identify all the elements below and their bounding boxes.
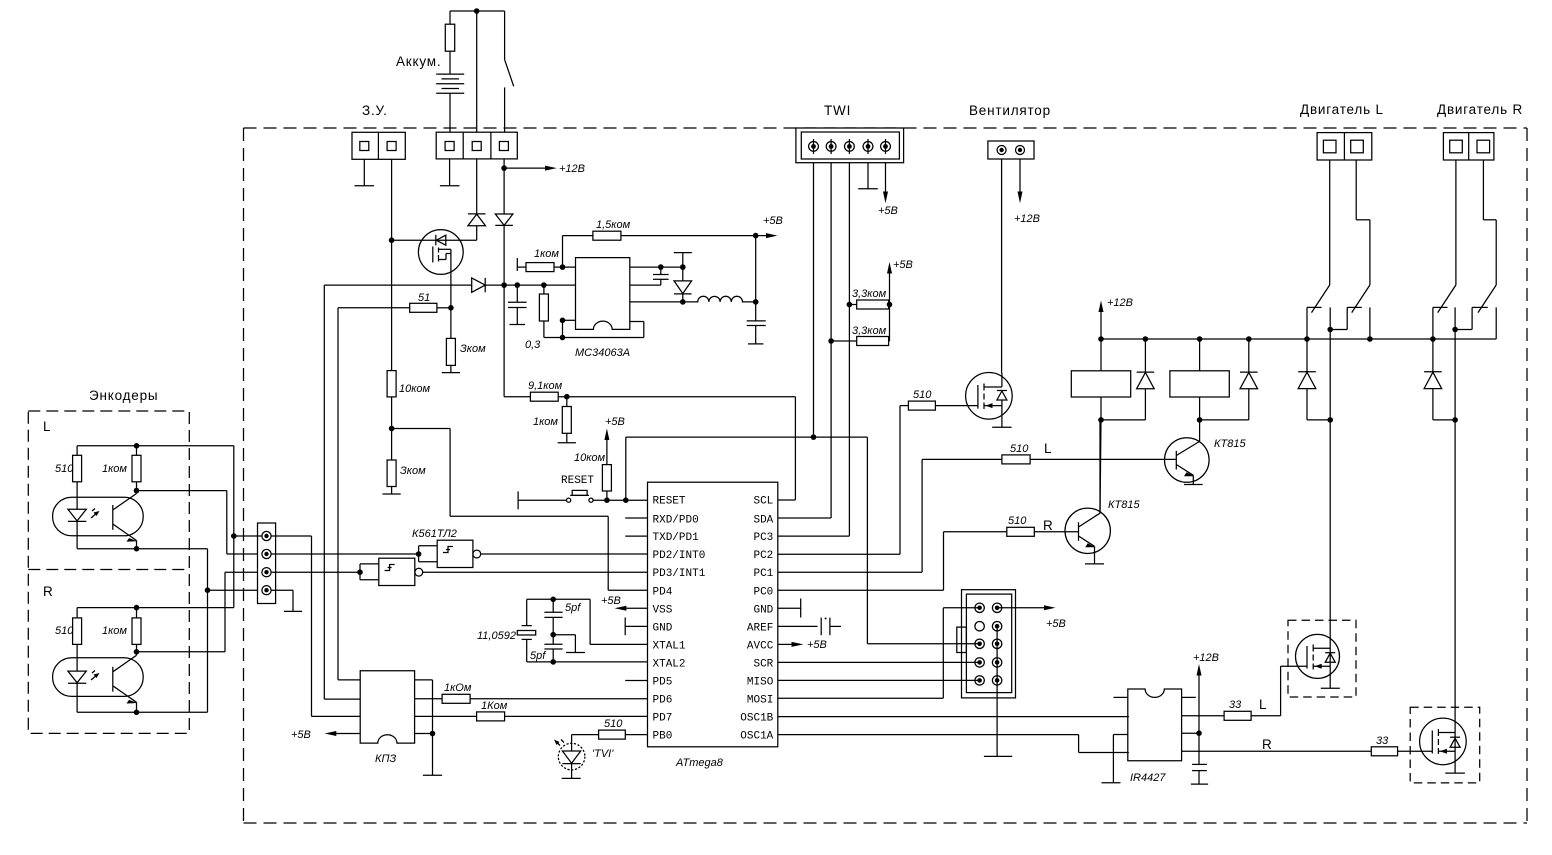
node reset +5V branch [623, 497, 629, 503]
phototransistor opto R [113, 652, 138, 713]
node +12V tap [501, 165, 507, 171]
wire X2 pin3 down [503, 159, 505, 214]
node pullup upper right [887, 302, 893, 308]
svg-text:PB0: PB0 [653, 731, 673, 743]
svg-text:+5В: +5В [763, 215, 783, 227]
terminal stub diode top [674, 253, 692, 281]
svg-text:+5В: +5В [605, 416, 625, 428]
diode VD7 snubber L [1298, 339, 1330, 420]
net label +12V arrow [504, 166, 557, 171]
resistor 1ком encoder R [132, 608, 141, 652]
ground stub IR4427 [1102, 735, 1128, 783]
pin labels left [653, 496, 706, 743]
svg-text:RESET: RESET [653, 496, 686, 508]
wire motor L pin1 [1329, 160, 1331, 285]
wire motor R pin1 [1455, 160, 1457, 285]
diode VD3 series [472, 278, 576, 292]
node K1 bottom [1098, 417, 1104, 423]
wire encoder R bottom [77, 711, 207, 713]
ground stub X2 pin1 [440, 159, 460, 186]
crystal ZQ1 11,0592 [517, 599, 535, 662]
svg-text:MOSI: MOSI [747, 695, 773, 707]
svg-text:5pf: 5pf [530, 650, 546, 662]
wire KP3 pin stubs left [324, 680, 360, 699]
resistor 1ком pulldown [558, 397, 576, 443]
svg-text:L: L [43, 419, 51, 434]
node rail VD6 [1246, 336, 1252, 342]
wire MOSI to ISP [778, 608, 980, 698]
main supply wire to MC34063 [324, 284, 471, 286]
wire IR4427 vcc pin [1182, 732, 1199, 734]
ground stub MOSFET L [1321, 687, 1340, 689]
node caps mid [550, 632, 556, 638]
MOSFET VT5 dashed box L [1288, 620, 1356, 697]
node rail K2 [1197, 336, 1203, 342]
node XTAL2 [550, 659, 556, 665]
svg-text:Двигатель L: Двигатель L [1300, 102, 1384, 117]
node R rail 1k [134, 605, 140, 611]
svg-text:33: 33 [1229, 699, 1242, 711]
contact blade L1 [1312, 285, 1330, 313]
resistor 510 PB0 [572, 730, 648, 743]
wire K1 to VD5 [1101, 419, 1145, 421]
wire PC2 riser [899, 406, 901, 555]
node common ground [205, 587, 211, 593]
resistor 1Ком PD7 [415, 712, 648, 721]
resistor 1ком MC34063 [517, 263, 575, 272]
wire divider to PD4 [392, 429, 648, 591]
connector X1 charger 2-pin [352, 132, 405, 159]
node bottom loop [560, 318, 566, 324]
svg-text:1кОм: 1кОм [444, 682, 472, 694]
node 1.5k junction [560, 264, 566, 270]
node divider junction [389, 426, 395, 432]
node IR4427 vcc [1196, 730, 1202, 736]
svg-text:RESET: RESET [561, 475, 594, 487]
node +5V out [753, 233, 759, 239]
relay K2 coil [1170, 339, 1229, 420]
ground stub GND left [625, 617, 647, 635]
svg-text:5pf: 5pf [565, 602, 581, 614]
svg-text:PC0: PC0 [753, 586, 773, 598]
transistor VT2 fan MOSFET [935, 373, 1012, 420]
connector X5 fan [988, 141, 1034, 159]
resistor 0,3 [539, 285, 548, 337]
light arrows opto L [91, 509, 100, 519]
net label +12V fan arrow [1018, 159, 1023, 203]
diode VD2 (cathode down) [495, 214, 513, 285]
phototransistor opto L [113, 491, 138, 549]
wire encoder L top rail [77, 446, 234, 608]
capacitor input MC34063 [508, 285, 527, 324]
push button RESET [518, 490, 647, 509]
node KP3 gnd [430, 731, 436, 737]
encoder box dashed [28, 411, 189, 733]
svg-text:PD4: PD4 [653, 586, 673, 598]
wire PC1 [778, 571, 922, 573]
resistor 3,3ком lower pullup [831, 337, 889, 346]
pin stub RXD/PD0 [625, 517, 647, 519]
transistor VT6 MOSFET R [1420, 718, 1467, 765]
LED TVI [554, 740, 585, 779]
wire motor L pin2 jog [1356, 160, 1370, 285]
svg-text:PD5: PD5 [653, 677, 673, 689]
svg-text:+12В: +12В [1107, 297, 1133, 309]
node TWI pin1 to +5V [811, 434, 817, 440]
resistor 33 R gate [1182, 747, 1433, 756]
wire fan pin1 to MOSFET drain [1001, 159, 1003, 373]
contact fixed R1 [1433, 307, 1448, 339]
inductor L1 [683, 296, 756, 302]
resistor 9,1ком [504, 392, 795, 401]
svg-text:Двигатель R: Двигатель R [1437, 102, 1523, 117]
node R snubber [1452, 417, 1458, 423]
wire X2 pin2 to diode VD1 [476, 159, 478, 214]
wire encoder L output [137, 491, 258, 554]
wire XTAL1 top [527, 599, 648, 644]
wire X1 pin2 down to gate node [391, 159, 393, 240]
svg-text:OSC1B: OSC1B [740, 713, 773, 725]
svg-text:R: R [43, 584, 54, 599]
svg-text:510: 510 [55, 463, 74, 475]
resistor 10ком [387, 240, 396, 428]
resistor 510 fan gate [900, 401, 935, 410]
wire TWI pin3 PC3 [848, 163, 850, 536]
connector X3 4-pin [258, 523, 276, 604]
net label +5V KP3 arrow [325, 731, 361, 736]
main device dashed border [244, 128, 1528, 823]
fuse F1 [445, 11, 454, 74]
wire SDA [778, 517, 831, 519]
resistor 3ком lower [383, 429, 401, 495]
ground stub MOSFET R [1445, 772, 1465, 774]
wire TWI pin1 to +5V rail [813, 163, 815, 437]
svg-text:10ком: 10ком [399, 383, 431, 395]
wire TWI pin2 SDA [830, 163, 832, 518]
svg-text:IR4427: IR4427 [1130, 772, 1166, 784]
ground stub caps [553, 635, 585, 653]
contact blade R2 [1478, 285, 1496, 313]
svg-text:МС34063А: МС34063А [575, 347, 630, 359]
optocoupler U4 R outline [53, 658, 144, 697]
net label +12V relays arrow [1099, 301, 1104, 340]
wire PC1 riser [921, 459, 923, 572]
capacitor 5pf lower [544, 635, 562, 662]
wire timing pin [630, 266, 683, 268]
svg-text:XTAL1: XTAL1 [653, 640, 686, 652]
ground stub GND right [778, 599, 801, 618]
node bottom loop2 [560, 335, 566, 341]
svg-text:3,3ком: 3,3ком [852, 288, 887, 300]
node R step [1452, 327, 1458, 333]
resistor 1кОм PD6 [415, 694, 648, 703]
node emitter L [134, 546, 140, 552]
svg-text:КПЗ: КПЗ [375, 753, 396, 765]
wire SCL [778, 499, 796, 501]
wire encoder L bottom [77, 549, 207, 713]
resistor 3ком pulldown [442, 338, 460, 372]
relay K1 coil [1071, 339, 1130, 420]
wire motor R pin2 jog [1483, 160, 1496, 285]
wire encoder R top rail [77, 607, 234, 609]
svg-text:+5В: +5В [601, 595, 621, 607]
op-amp U2 MC34063A body [576, 258, 630, 330]
wire 51 left drop to KP3 [337, 308, 339, 680]
net label +5V arrow [756, 233, 778, 238]
net label +5V TWI pin5 arrow [883, 163, 888, 204]
net label +5V VSS arrow [615, 606, 648, 611]
resistor 510 R base [944, 527, 1079, 536]
wire +12V rail [1101, 338, 1496, 340]
svg-text:L: L [1044, 441, 1052, 456]
wire gate line through MOSFET [392, 239, 477, 241]
resistor 10ком reset pullup [602, 465, 611, 501]
wire SCR to ISP [778, 661, 980, 663]
svg-text:TWI: TWI [824, 103, 851, 118]
contact common riser L [1369, 307, 1371, 339]
svg-text:PD3/INT1: PD3/INT1 [653, 568, 706, 580]
IC U5 KP3 [360, 671, 414, 743]
contact common riser R [1495, 307, 1497, 339]
node 51 to VT1 drain [448, 305, 454, 311]
capacitor output [747, 321, 766, 344]
svg-text:OSC1A: OSC1A [740, 731, 773, 743]
pin stub IR4427 top-left [1114, 696, 1128, 698]
wire motor L drain column [1329, 307, 1331, 688]
net label +5V pullups arrow [887, 262, 892, 341]
wire common to pin4 [208, 589, 258, 591]
pin stub IR4427 top-right [1182, 696, 1196, 698]
svg-text:VSS: VSS [653, 604, 673, 616]
wire K2 to VD6 [1200, 419, 1249, 421]
wire pin2 row to gate [271, 553, 419, 555]
wire +5V rail to right [626, 437, 980, 644]
wire battery mid to connector pin2 [476, 11, 478, 132]
svg-text:SCL: SCL [753, 496, 773, 508]
svg-text:51: 51 [418, 292, 430, 304]
LED inside opto L [68, 509, 86, 548]
wire MISO to ISP [778, 679, 980, 681]
svg-text:PD7: PD7 [653, 713, 673, 725]
svg-text:L: L [1259, 697, 1267, 712]
wire switch pin [630, 301, 683, 303]
node rail K1 [1098, 336, 1104, 342]
svg-text:ATmega8: ATmega8 [675, 757, 724, 769]
wire pin1 row [234, 536, 360, 716]
transistor VT4 KT815 L [1165, 420, 1210, 485]
wire encoder R output [137, 572, 258, 652]
switch SA1 [505, 11, 514, 132]
transistor VT1 P-MOSFET protection [418, 230, 463, 275]
svg-text:AREF: AREF [747, 622, 773, 634]
wire OSC1B to IR4427 [778, 716, 1129, 718]
resistor 3,3ком upper pullup [849, 300, 889, 309]
wire PC3 [778, 535, 850, 537]
svg-text:TXD/PD1: TXD/PD1 [653, 532, 700, 544]
transistor VT5 MOSFET L [1296, 634, 1340, 678]
connector X2 battery 3-pin [436, 132, 517, 159]
transistor VT3 KT815 R [1065, 420, 1110, 564]
wire motor R drain column [1454, 307, 1456, 773]
IC U6 IR4427 [1128, 689, 1182, 761]
terminal stub 1k input [516, 258, 518, 271]
logic gate DD1.2 upper [416, 540, 648, 567]
node battery top junction [474, 8, 480, 14]
node 0.3 ohm branch [541, 282, 547, 288]
connector X4 TWI [796, 128, 904, 163]
svg-text:510: 510 [1010, 443, 1029, 455]
pin stub PD5 [625, 680, 647, 682]
svg-text:PC3: PC3 [753, 532, 773, 544]
svg-text:33: 33 [1376, 735, 1389, 747]
wire +5V vertical [755, 236, 757, 321]
node L rail 1k [134, 443, 140, 449]
svg-text:0,3: 0,3 [525, 339, 541, 351]
wire pin3 row to gate [271, 571, 360, 573]
pin labels right [740, 496, 773, 743]
net label +5V ISP arrow [997, 605, 1055, 610]
svg-text:RXD/PD0: RXD/PD0 [653, 515, 699, 527]
svg-text:510: 510 [913, 389, 932, 401]
svg-text:XTAL2: XTAL2 [653, 659, 686, 671]
svg-text:1ком: 1ком [102, 463, 127, 475]
wire bottom loop MC34063 [544, 320, 644, 337]
svg-text:+12В: +12В [559, 163, 585, 175]
wire KP3 loop right [415, 680, 443, 775]
svg-text:З.У.: З.У. [362, 103, 388, 118]
node collector L [134, 488, 140, 494]
node reset pullup [604, 497, 610, 503]
wire PC0 [778, 589, 944, 591]
svg-text:GND: GND [753, 604, 773, 616]
capacitor timing [630, 267, 669, 285]
ground stub pin4 [271, 590, 302, 611]
diode VD1 (cathode up) [468, 214, 486, 240]
svg-text:510: 510 [604, 718, 623, 730]
svg-text:PC2: PC2 [753, 550, 773, 562]
wire PC0 riser [943, 532, 945, 591]
contact fixed L1 [1307, 307, 1322, 339]
net label +5V reset arrow [604, 429, 609, 465]
node +5V cap [753, 299, 759, 305]
diode VD5 [1137, 339, 1155, 420]
ground stub X1 pin1 [355, 159, 375, 186]
ground stub TWI pin4 [858, 163, 878, 189]
svg-text:9,1ком: 9,1ком [528, 380, 563, 392]
svg-text:Вентилятор: Вентилятор [969, 103, 1051, 118]
node collector R [134, 649, 140, 655]
contact blade L2 [1352, 285, 1370, 313]
node L step [1327, 327, 1333, 333]
svg-text:'TVI': 'TVI' [592, 748, 614, 760]
svg-text:1ком: 1ком [102, 625, 127, 637]
svg-text:1Ком: 1Ком [481, 700, 508, 712]
connector X6 ISP [957, 590, 1016, 698]
svg-text:+5В: +5В [1046, 618, 1066, 630]
light arrows opto R [91, 671, 100, 681]
svg-text:+12В: +12В [1014, 213, 1040, 225]
svg-text:+5В: +5В [893, 259, 913, 271]
svg-text:SDA: SDA [753, 515, 773, 527]
resistor 1,5ком [563, 231, 756, 267]
ground stub fan MOSFET [992, 419, 1011, 427]
capacitor AREF [778, 618, 841, 636]
node K2 bottom [1197, 417, 1203, 423]
svg-text:Зком: Зком [460, 343, 486, 355]
net label +5V AVCC arrow [778, 642, 804, 647]
node emitter R [134, 710, 140, 716]
node rail motorL c2 [1367, 336, 1373, 342]
svg-text:10ком: 10ком [574, 452, 606, 464]
svg-text:510: 510 [1008, 515, 1027, 527]
node cap branch [515, 282, 521, 288]
net label +12V IR4427 arrow [1197, 664, 1202, 733]
node cap 5pf top [550, 597, 556, 603]
node rail VD5 [1143, 336, 1149, 342]
svg-text:+5В: +5В [807, 639, 827, 651]
capacitor IR4427 bypass [1191, 733, 1208, 784]
IC U1 ATmega8 [648, 482, 778, 747]
svg-text:Зком: Зком [400, 465, 426, 477]
connector X7 motor L [1317, 133, 1372, 160]
svg-text:510: 510 [55, 625, 74, 637]
wire K1 to VT3 collector [1100, 420, 1101, 513]
node rail motorL c1 [1304, 336, 1310, 342]
node VD2 to line [501, 282, 507, 288]
node timing cap [658, 264, 664, 270]
connector X8 motor R [1443, 133, 1494, 160]
svg-text:R: R [1262, 737, 1273, 752]
svg-text:MISO: MISO [747, 677, 774, 689]
diode VD8 snubber R [1424, 339, 1455, 420]
diode VD6 [1240, 339, 1258, 420]
svg-text:R: R [1043, 518, 1054, 533]
wire 285 line left drop to KP3 [323, 285, 325, 699]
capacitor 5pf upper [544, 599, 562, 634]
svg-text:К561ТЛ2: К561ТЛ2 [412, 528, 457, 540]
svg-text:+12В: +12В [1193, 652, 1219, 664]
svg-text:+5В: +5В [291, 729, 311, 741]
pin stub TXD/PD1 [625, 535, 647, 537]
svg-text:Энкодеры: Энкодеры [89, 388, 158, 403]
node inductor in [680, 299, 686, 305]
contact blade R1 [1438, 285, 1456, 313]
node timing diode [680, 264, 686, 270]
node rail motorR c1 [1430, 336, 1436, 342]
resistor 51 [338, 303, 451, 312]
svg-text:+5В: +5В [878, 205, 898, 217]
svg-text:Аккум.: Аккум. [396, 54, 441, 69]
svg-text:GND: GND [653, 622, 673, 634]
node L snubber [1327, 417, 1333, 423]
MOSFET VT6 dashed box R [1410, 707, 1480, 783]
wire 9.1k feed from +12 switched [503, 285, 505, 397]
LED inside opto R [68, 671, 86, 712]
svg-text:КТ815: КТ815 [1214, 438, 1246, 450]
svg-text:11,0592: 11,0592 [477, 630, 516, 642]
wire VT1 drain down [450, 274, 452, 338]
svg-text:AVCC: AVCC [747, 640, 774, 652]
logic gate DD1.1 lower [357, 558, 647, 585]
svg-text:1,5ком: 1,5ком [596, 219, 631, 231]
contact fixed R2 [1455, 307, 1488, 329]
resistor 510 L base [922, 455, 1176, 464]
wire PC2 [778, 553, 900, 555]
wire SCL drop [794, 397, 796, 500]
svg-text:PC1: PC1 [753, 568, 773, 580]
wire battery top [450, 10, 505, 12]
node pullup lower left [828, 338, 834, 344]
